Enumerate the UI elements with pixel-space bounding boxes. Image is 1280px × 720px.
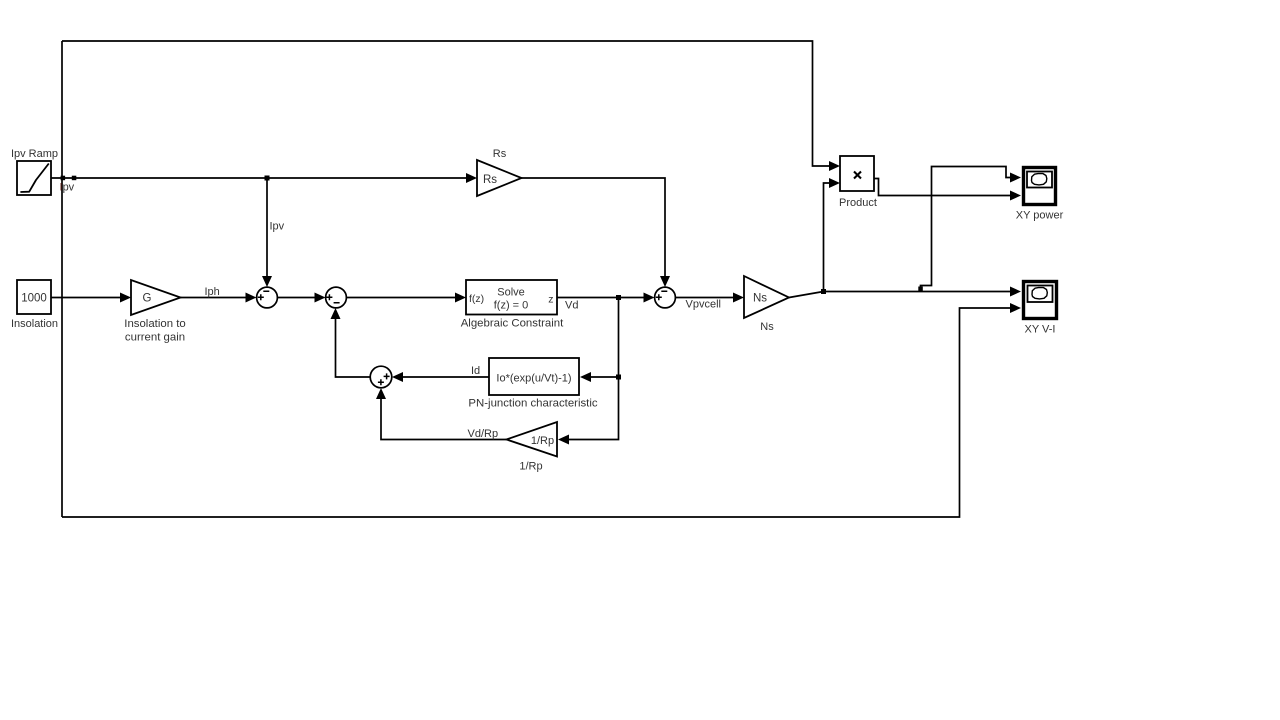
signal label Iph xyxy=(205,286,220,298)
wire gain G to sum S1 xyxy=(181,297,248,299)
ramp block Ipv Ramp xyxy=(17,161,51,195)
arrowhead into Product input 1 xyxy=(829,161,840,171)
svg-text:z: z xyxy=(548,294,553,306)
svg-text:1/Rp: 1/Rp xyxy=(519,461,542,473)
wire junction up to Product input 2 xyxy=(824,183,831,292)
signal label Vpvcell xyxy=(686,299,721,311)
svg-text:Ipv Ramp: Ipv Ramp xyxy=(11,148,58,160)
arrowhead into XY V-I input 2 xyxy=(1010,303,1021,313)
svg-text:1000: 1000 xyxy=(21,293,47,305)
svg-text:Product: Product xyxy=(839,197,877,209)
junction dot Ns output xyxy=(821,289,826,294)
wire junction right to XY V-I input 1 xyxy=(824,291,1012,293)
svg-text:f(z) = 0: f(z) = 0 xyxy=(494,300,529,312)
svg-text:Solve: Solve xyxy=(497,287,525,299)
junction dot on ramp wire at loop line xyxy=(61,176,66,181)
sum S2 xyxy=(326,287,347,308)
svg-text:PN-junction characteristic: PN-junction characteristic xyxy=(468,398,597,410)
svg-text:Ipv: Ipv xyxy=(60,182,75,194)
sum S4 xyxy=(655,287,676,308)
label Product xyxy=(839,197,877,209)
svg-text:Rs: Rs xyxy=(483,174,497,186)
svg-text:Algebraic Constraint: Algebraic Constraint xyxy=(461,318,564,330)
junction dot PN input branch xyxy=(616,375,621,380)
signal label Vd/Rp xyxy=(468,428,499,440)
junction dot Vd branch xyxy=(616,295,621,300)
arrowhead into sum S2 left xyxy=(315,293,326,303)
svg-text:Ns: Ns xyxy=(760,321,774,333)
wire ramp output to Rs gain xyxy=(51,177,467,179)
block PN-junction characteristic xyxy=(489,358,579,395)
wire sum S2 to Algebraic Constraint xyxy=(347,297,457,299)
svg-text:Ns: Ns xyxy=(753,293,767,305)
wire constant to gain G xyxy=(51,297,121,299)
junction dot Ipv branch xyxy=(265,176,270,181)
arrowhead into Ns gain xyxy=(733,293,744,303)
arrowhead into sum S3 bottom xyxy=(376,388,386,399)
wire Ns output diagonal to junction xyxy=(789,292,824,298)
svg-text:Insolation to: Insolation to xyxy=(124,318,185,330)
svg-text:1/Rp: 1/Rp xyxy=(531,435,554,447)
label Ipv Ramp xyxy=(11,148,58,160)
svg-text:Ipv: Ipv xyxy=(270,221,285,233)
svg-text:Io*(exp(u/Vt)-1): Io*(exp(u/Vt)-1) xyxy=(496,373,571,385)
arrowhead into sum S3 right xyxy=(392,372,403,382)
constant block 1000 xyxy=(17,280,51,314)
wire sum S1 to sum S2 xyxy=(278,297,317,299)
svg-text:XY power: XY power xyxy=(1016,210,1064,222)
svg-text:Rs: Rs xyxy=(493,148,507,160)
scope XY V-I xyxy=(1024,282,1057,319)
label XY power xyxy=(1016,210,1064,222)
svg-text:Vd/Rp: Vd/Rp xyxy=(468,428,499,440)
svg-text:Insolation: Insolation xyxy=(11,318,58,330)
wire Algebraic Constraint output Vd to sum S4 xyxy=(557,297,645,299)
svg-text:Vpvcell: Vpvcell xyxy=(686,299,721,311)
gain G (Insolation to current gain) xyxy=(131,280,181,315)
junction dot on ramp wire right xyxy=(72,176,77,181)
wire Rs gain output to sum S4 top xyxy=(522,178,666,277)
gain Rs xyxy=(477,160,522,196)
wire 1/Rp output Vd/Rp to sum S3 bottom xyxy=(381,398,507,440)
wire Ipv branch down to sum S1 xyxy=(266,178,268,277)
label XY V-I xyxy=(1025,324,1056,336)
signal label Id xyxy=(471,365,480,377)
arrowhead into sum S4 top xyxy=(660,276,670,287)
arrowhead into PN-junction right side xyxy=(580,372,591,382)
svg-text:current gain: current gain xyxy=(125,332,185,344)
gain Ns xyxy=(744,276,789,318)
arrowhead into XY V-I input 1 xyxy=(1010,287,1021,297)
wire sum S3 output to sum S2 bottom xyxy=(336,318,371,377)
wire top loop to Product input 1 xyxy=(62,41,830,166)
arrowhead into Algebraic Constraint xyxy=(455,293,466,303)
svg-text:G: G xyxy=(143,293,152,305)
scope XY power xyxy=(1024,168,1056,205)
arrowhead into gain G xyxy=(120,293,131,303)
arrowhead into XY power input 2 xyxy=(1010,191,1021,201)
signal label Ipv xyxy=(270,221,285,233)
label 1/Rp below xyxy=(519,461,542,473)
arrowhead into sum S1 top xyxy=(262,276,272,287)
label Ns below xyxy=(760,321,774,333)
arrowhead into sum S1 left xyxy=(246,293,257,303)
arrowhead into XY power input 1 xyxy=(1010,173,1021,183)
sum S3 xyxy=(370,366,392,388)
label Insolation xyxy=(11,318,58,330)
svg-text:XY V-I: XY V-I xyxy=(1025,324,1056,336)
sum S1 xyxy=(257,287,278,308)
label PN-junction characteristic xyxy=(468,398,597,410)
wire Vd branch down to PN-junction input xyxy=(591,298,619,378)
wire PN-junction output Id to sum S3 xyxy=(402,376,489,378)
block Algebraic Constraint xyxy=(466,280,557,315)
svg-text:f(z): f(z) xyxy=(469,293,484,305)
arrowhead into 1/Rp right side xyxy=(558,435,569,445)
label Algebraic Constraint xyxy=(461,318,564,330)
arrowhead into Rs gain xyxy=(466,173,477,183)
wire Product output to XY power input 2 xyxy=(874,179,1011,196)
arrowhead into Product input 2 xyxy=(829,178,840,188)
svg-text:Vd: Vd xyxy=(565,300,578,312)
arrowhead into sum S2 bottom xyxy=(331,308,341,319)
arrowhead into sum S4 left xyxy=(644,293,655,303)
label Rs above xyxy=(493,148,507,160)
wire sum S4 output Vpvcell to Ns gain xyxy=(676,297,735,299)
signal label Vd xyxy=(565,300,578,312)
signal label Ipv at ramp port xyxy=(60,182,75,194)
wire Vd branch down to 1/Rp input xyxy=(568,377,619,440)
gain 1/Rp xyxy=(507,422,558,457)
wire big loop left vertical xyxy=(61,41,63,517)
svg-text:Id: Id xyxy=(471,365,480,377)
wire bottom loop to XY V-I input 2 xyxy=(62,308,1011,517)
block Product xyxy=(840,156,874,191)
wire branch jog up to XY power input 1 xyxy=(921,167,1012,292)
junction dot XY power branch xyxy=(918,287,923,292)
label Insolation to current gain xyxy=(124,318,185,344)
svg-text:Iph: Iph xyxy=(205,286,220,298)
